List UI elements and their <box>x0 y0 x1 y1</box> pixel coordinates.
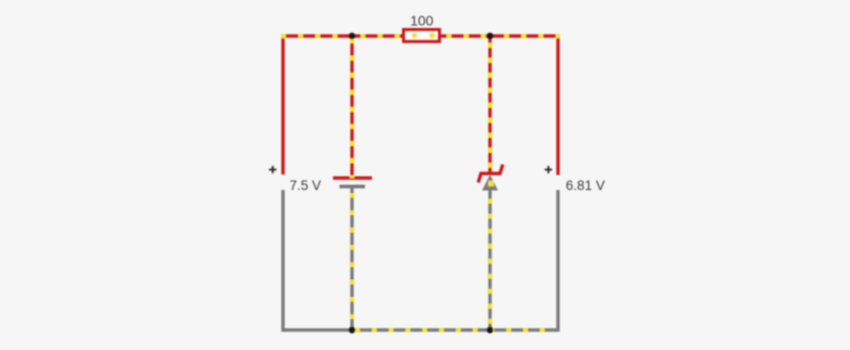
current dots top wire segment node A to resistor <box>361 34 403 39</box>
junction node top-left <box>349 33 356 40</box>
probe P1 gray lead (left, 0V side) <box>281 190 284 332</box>
current dot inside zener triangle <box>488 181 494 187</box>
probe P1 red lead (left, +7.5V side) <box>281 34 284 174</box>
resistor R1 body <box>404 30 440 42</box>
current dots V1 gray lead <box>350 193 355 330</box>
current dots top wire segment node B to right corner <box>504 34 560 39</box>
zener diode D1 anode triangle <box>482 175 498 191</box>
probe P2 red lead (right, +6.81V side) <box>556 34 559 175</box>
voltage source V1 red lead <box>350 36 353 177</box>
zener diode D1 red lead <box>488 36 491 174</box>
wire top red from left corner to right corner <box>283 34 558 37</box>
zener diode D1 gray lead <box>488 191 491 331</box>
svg-text:6.81 V: 6.81 V <box>566 178 605 193</box>
voltage source V1 gray lead <box>350 187 353 331</box>
zener diode D1 cathode bar with bent ends <box>478 165 503 183</box>
plus sign probe P1 <box>269 166 276 173</box>
voltage source V1 positive plate <box>333 176 372 179</box>
current dot inside resistor left <box>412 33 418 39</box>
junction node top-right <box>487 33 494 40</box>
current dots bottom wire <box>355 328 545 333</box>
junction node bottom-left <box>349 327 356 334</box>
current dots top wire segment corner to node A <box>281 34 352 39</box>
svg-text:7.5 V: 7.5 V <box>290 178 322 193</box>
probe P2 gray lead (right, 0V side) <box>556 190 559 332</box>
current dot inside resistor right <box>429 33 435 39</box>
current dots zener red lead <box>488 43 493 168</box>
voltage source V1 negative plate <box>340 185 366 188</box>
current dots V1 red lead <box>350 39 355 178</box>
wire bottom gray from left corner to right corner <box>283 328 558 331</box>
current dots top wire segment resistor to node B <box>447 34 490 39</box>
current dots zener gray lead <box>488 199 493 330</box>
plus sign probe P2 <box>545 166 552 173</box>
svg-text:100: 100 <box>410 13 434 29</box>
junction node bottom-right <box>487 327 494 334</box>
